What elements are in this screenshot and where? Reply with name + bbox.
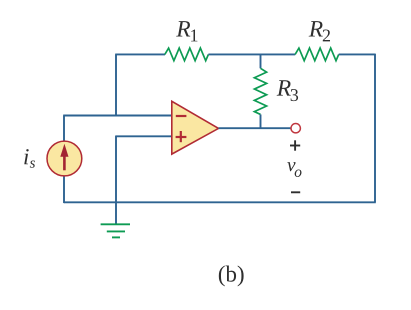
- op-amp minus symbol: [176, 115, 187, 117]
- wire bottom horizontal: [64, 201, 376, 203]
- op-amp U1 triangle: [172, 101, 219, 154]
- wire right vertical: [374, 54, 376, 203]
- wire inverting input horizontal: [63, 115, 172, 117]
- resistor R3 (vertical) with leads: [254, 54, 266, 129]
- op-amp plus symbol: [176, 131, 187, 142]
- label minus polarity: [291, 191, 300, 193]
- label i_s: [24, 149, 35, 168]
- label v_o: [287, 162, 301, 177]
- current source arrow: [60, 144, 68, 171]
- label plus polarity: [290, 140, 300, 150]
- wire feedback vertical from top wire to inverting input: [115, 54, 117, 115]
- output terminal node vo: [291, 124, 300, 133]
- ground: [101, 224, 130, 237]
- wire top middle segment between R1 and R2: [208, 53, 295, 55]
- wire top-left segment to R1: [115, 53, 165, 55]
- resistor R2: [295, 48, 339, 61]
- wire ground vertical crossing bottom wire: [115, 136, 117, 225]
- resistor R1: [165, 48, 209, 61]
- wire op-amp output to terminal: [219, 127, 291, 129]
- wire top-right segment from R2 to right corner: [339, 53, 375, 55]
- label R2: [309, 21, 330, 41]
- label R1: [176, 21, 197, 41]
- wire noninverting input horizontal: [116, 135, 172, 137]
- wire left vertical through current source: [63, 116, 65, 204]
- current source IS circle: [47, 141, 82, 176]
- label R3: [277, 80, 298, 101]
- caption (b): [219, 266, 244, 287]
